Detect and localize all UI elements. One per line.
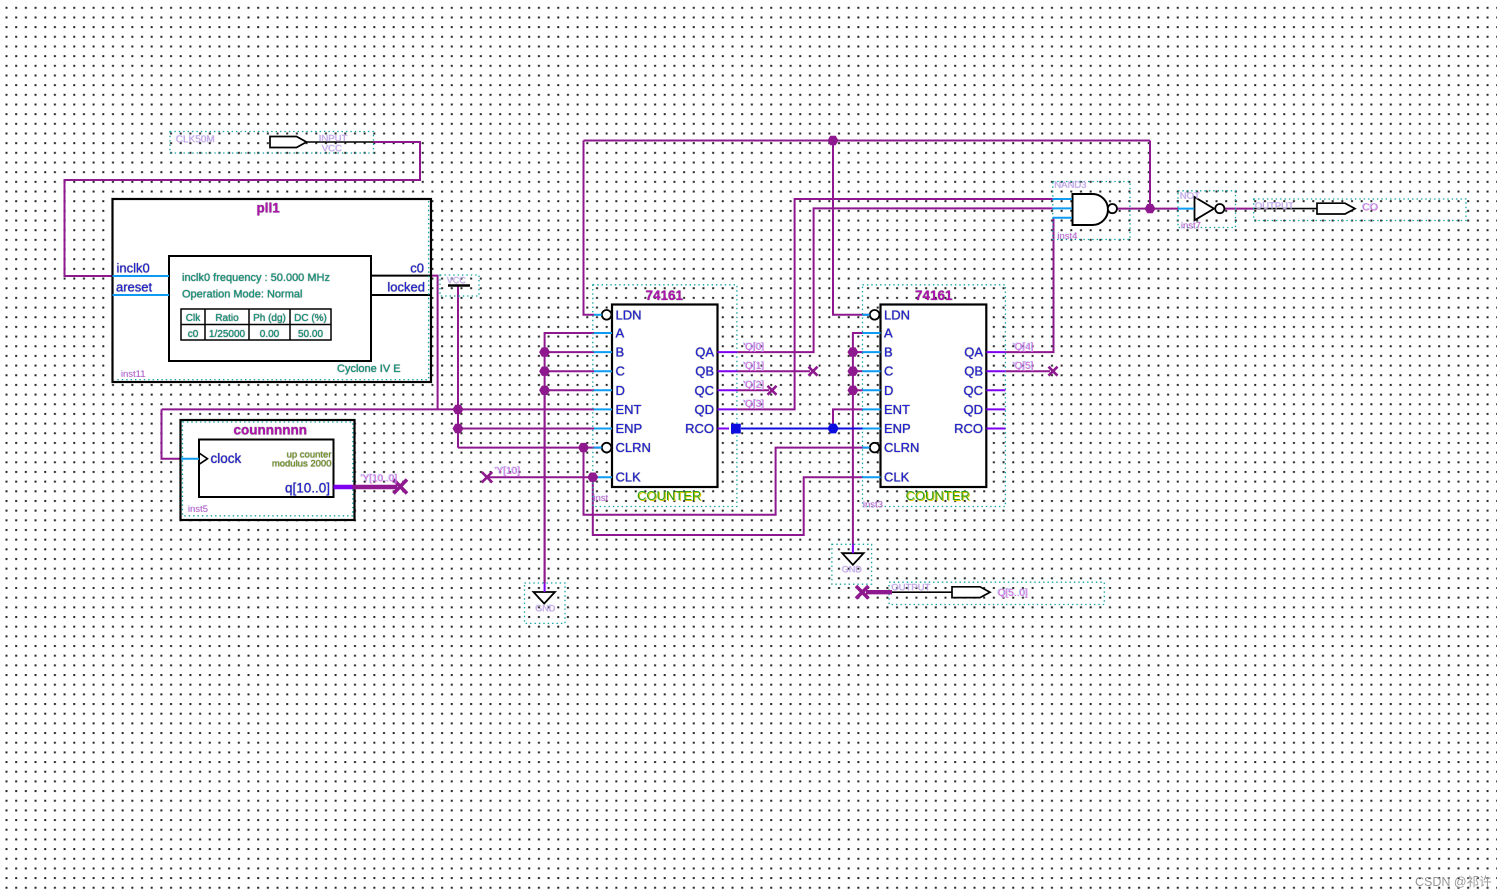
svg-text:locked: locked	[387, 280, 425, 295]
wire D1 tap	[545, 389, 594, 391]
bus Y[10..0] violet stub	[334, 485, 353, 489]
svg-text:COUNTER: COUNTER	[637, 488, 701, 503]
stub U1 QA	[718, 351, 738, 353]
svg-text:QC: QC	[964, 383, 984, 398]
svg-text:0.00: 0.00	[260, 329, 280, 340]
svg-text:RCO: RCO	[685, 421, 714, 436]
svg-text:clock: clock	[211, 451, 242, 466]
svg-text:Clk: Clk	[186, 313, 201, 324]
svg-text:D: D	[616, 383, 625, 398]
svg-text:counnnnnn: counnnnnn	[234, 423, 307, 438]
NAND3 bubble	[1108, 204, 1117, 213]
pll1 table	[181, 309, 331, 340]
svg-text:A: A	[884, 326, 893, 341]
LDN2 bubble	[870, 310, 880, 320]
stub U2 ENT	[863, 408, 881, 410]
stub U2 QD	[986, 408, 1005, 410]
svg-text:inst: inst	[594, 493, 609, 504]
svg-text:'Y[10]: 'Y[10]	[495, 466, 520, 477]
stub U2 CLRN	[863, 447, 870, 449]
wire NAND out to NOT in	[1117, 208, 1178, 210]
wire GND1 riser	[544, 390, 546, 583]
wire QA1 to NAND in2	[737, 208, 1053, 352]
output pin CO symbol	[1317, 203, 1355, 214]
svg-text:QA: QA	[695, 345, 714, 360]
stub GND2	[852, 545, 854, 554]
wire QA2 to NAND in3	[1005, 218, 1053, 352]
stub U2 QC	[986, 389, 1005, 391]
stub NAND3 in1	[1053, 198, 1072, 200]
stub U1 QD	[718, 408, 738, 410]
svg-text:QA: QA	[964, 345, 983, 360]
selection rect 74161 inst	[593, 285, 737, 507]
blue junction ENP2/ENT2	[827, 424, 838, 434]
svg-text:GND: GND	[536, 604, 557, 614]
svg-text:C: C	[616, 364, 625, 379]
svg-text:1/25000: 1/25000	[209, 329, 246, 340]
wire CLK1 to CLK2 U-route	[593, 477, 863, 535]
svg-text:QB: QB	[695, 364, 714, 379]
svg-text:areset: areset	[116, 280, 153, 295]
svg-text:QD: QD	[695, 402, 715, 417]
selection rect GND2	[832, 544, 872, 584]
svg-text:'Q[0]: 'Q[0]	[744, 342, 765, 353]
svg-text:DC (%): DC (%)	[294, 313, 327, 324]
74161 inst3 box	[881, 305, 987, 488]
stub NAND3 in2	[1053, 207, 1072, 209]
selection rect CLK50M input	[170, 132, 374, 154]
stub U2 QA	[986, 351, 1005, 353]
junction bus1 D	[539, 386, 550, 395]
stub U2 B	[863, 351, 881, 353]
svg-text:NAND3: NAND3	[1055, 180, 1087, 191]
svg-text:inst11: inst11	[121, 369, 146, 380]
LDN1 bubble	[602, 310, 612, 320]
svg-text:Ph (dg): Ph (dg)	[253, 313, 286, 324]
CLRN2 bubble	[870, 443, 880, 453]
svg-text:OUTPUT: OUTPUT	[1255, 201, 1294, 212]
stub NAND3 in3	[1053, 217, 1072, 219]
wire ENP1 from VCC	[458, 428, 594, 430]
wire D2 tap	[853, 389, 863, 391]
stub U1 CLK	[594, 476, 612, 478]
GND1 symbol	[534, 592, 555, 604]
wire NOT out to CO pin	[1225, 208, 1254, 210]
stub counnnnnn clock	[181, 458, 199, 460]
svg-text:q[10..0]: q[10..0]	[285, 481, 330, 496]
svg-text:50.00: 50.00	[298, 329, 323, 340]
VCC bar	[448, 284, 470, 286]
wire Y10 to CLK1	[487, 476, 594, 478]
NOT bubble	[1215, 204, 1224, 213]
bus Y[10..0] thick	[353, 485, 398, 489]
svg-text:74161: 74161	[646, 288, 684, 303]
stub U1 QB	[718, 370, 738, 372]
output pin Q[5..0] symbol	[952, 587, 990, 598]
wire C1 tap	[545, 370, 594, 372]
stub U1 QC	[718, 389, 738, 391]
wire QB1 stub to X	[737, 370, 810, 372]
selection rect CO output	[1254, 199, 1466, 221]
svg-text:inst5: inst5	[188, 504, 208, 515]
wire ENT2 from RCO net	[833, 409, 863, 428]
svg-text:C: C	[884, 364, 893, 379]
svg-text:'Q[2]: 'Q[2]	[744, 380, 765, 391]
svg-text:'Y[10..0]: 'Y[10..0]	[361, 473, 398, 484]
stub U2 LDN	[863, 314, 870, 316]
svg-text:inst7: inst7	[1181, 221, 1201, 232]
svg-text:inclk0 frequency : 50.000 MHz: inclk0 frequency : 50.000 MHz	[182, 272, 330, 284]
stub U1 LDN	[594, 314, 602, 316]
svg-text:'Q[5]: 'Q[5]	[1013, 361, 1034, 372]
counnnnnn clock triangle	[200, 453, 208, 464]
svg-text:D: D	[884, 383, 893, 398]
wire QC1 stub to X	[737, 389, 769, 391]
selection rect GND1	[525, 583, 566, 623]
junction VCC/ENT	[453, 405, 464, 414]
wire pll1 c0 output down	[431, 276, 438, 410]
svg-text:74161: 74161	[915, 288, 953, 303]
stub U2 C	[863, 370, 881, 372]
X marker Y[10] CLK1	[482, 472, 492, 482]
svg-text:B: B	[616, 345, 625, 360]
svg-text:COUNTER: COUNTER	[906, 488, 970, 503]
X marker QC1	[768, 386, 777, 395]
stub pll inclk0	[113, 275, 170, 277]
svg-text:LDN: LDN	[884, 307, 910, 322]
selection rect NOT	[1178, 191, 1236, 228]
74161 inst box	[612, 305, 718, 488]
svg-text:inst3: inst3	[863, 500, 883, 511]
stub U2 A	[863, 332, 881, 334]
X marker QB2	[1049, 367, 1058, 376]
svg-text:GND: GND	[842, 565, 863, 575]
wire QD1 to NAND in1	[737, 199, 1053, 409]
svg-text:ENT: ENT	[616, 402, 642, 417]
stub U1 ENT	[594, 408, 612, 410]
counnnnnn inner box	[199, 440, 334, 498]
svg-text:QC: QC	[695, 383, 715, 398]
bus Q[5..0] thick	[866, 590, 892, 594]
svg-text:RCO: RCO	[954, 421, 983, 436]
svg-text:ENT: ENT	[884, 402, 910, 417]
svg-text:pll1: pll1	[257, 201, 281, 216]
input pin CLK50M line	[307, 141, 374, 143]
stub U2 QB	[986, 370, 1005, 372]
svg-text:CSDN @祁许: CSDN @祁许	[1415, 874, 1492, 889]
selection rect Q[5..0] output	[889, 582, 1104, 604]
pll1 inner box	[169, 256, 371, 361]
X marker QB1	[809, 367, 818, 376]
NAND3 gate body	[1073, 194, 1109, 225]
stub U1 D	[594, 389, 612, 391]
blue net RCO1 to ENP2	[741, 428, 863, 430]
svg-text:'Q[3]: 'Q[3]	[744, 399, 765, 410]
svg-text:QB: QB	[964, 364, 983, 379]
junction CLK1	[587, 473, 598, 482]
CLRN1 bubble	[602, 443, 612, 453]
junction bus2 B	[847, 347, 858, 356]
selection rect 74161 inst3	[863, 285, 1006, 507]
svg-text:Ratio: Ratio	[215, 313, 239, 324]
svg-text:'Q[1]: 'Q[1]	[744, 361, 765, 372]
stub U1 A	[594, 332, 612, 334]
blue square RCO1	[731, 424, 741, 434]
wire B1 tap	[545, 351, 594, 353]
svg-text:CLK: CLK	[616, 470, 642, 485]
wire C2 tap	[853, 370, 863, 372]
pll1 outer box	[113, 199, 432, 382]
GND2 symbol	[842, 553, 863, 565]
stub U1 B	[594, 351, 612, 353]
svg-text:CLK50M: CLK50M	[176, 135, 215, 146]
svg-text:Q[5..0]: Q[5..0]	[998, 588, 1028, 599]
svg-text:VCC: VCC	[447, 276, 467, 286]
selection rect VCC symbol	[440, 275, 479, 296]
svg-text:OUTPUT: OUTPUT	[892, 583, 931, 594]
stub U2 CLK	[863, 476, 881, 478]
wire bus1 ABCD	[545, 333, 594, 583]
stub U2 ENP	[863, 428, 881, 430]
junction bus1 C	[539, 367, 550, 376]
junction top net LDN2	[828, 136, 839, 145]
wire QB2 stub to X	[1005, 370, 1050, 372]
junction VCC/ENP	[453, 424, 464, 433]
stub U1 C	[594, 370, 612, 372]
svg-text:LDN: LDN	[616, 307, 642, 322]
wire LDN2 drop	[833, 141, 870, 315]
svg-text:CLRN: CLRN	[884, 440, 919, 455]
stub NOT in	[1178, 208, 1194, 210]
wire NAND out to top net	[1149, 141, 1151, 209]
svg-text:B: B	[884, 345, 893, 360]
X marker bus Q[5..0]	[856, 586, 869, 599]
selection rect NAND3	[1053, 182, 1130, 240]
svg-text:c0: c0	[410, 261, 424, 276]
stub U1 CLRN	[594, 447, 602, 449]
output pin CO line	[1254, 208, 1317, 210]
svg-text:CO: CO	[1363, 202, 1379, 214]
svg-text:'Q[4]: 'Q[4]	[1013, 342, 1034, 353]
pll1 stub locked (black)	[371, 294, 431, 296]
wire VCC to CLRN1	[458, 447, 602, 449]
selection rect counnnnnn	[183, 422, 353, 516]
wire to counnnnnn clock	[162, 409, 182, 458]
junction CLRN1	[578, 443, 589, 452]
wire CLK50M input to pll1 inclk0	[65, 142, 421, 276]
stub U1 RCO	[718, 428, 730, 430]
wire CLRN1 to CLRN2 U-route	[584, 448, 870, 515]
svg-text:inclk0: inclk0	[117, 261, 150, 276]
wire B2 tap	[853, 351, 863, 353]
stub pll areset	[113, 294, 170, 296]
pll1 stub c0 (black)	[371, 275, 431, 277]
stub U2 RCO	[986, 428, 1005, 430]
wire c0/VCC horizontal to ENT1	[162, 408, 595, 410]
svg-text:c0: c0	[188, 329, 199, 340]
selection rect pll1	[115, 201, 429, 380]
wire VCC down	[457, 286, 459, 448]
NOT gate triangle	[1195, 197, 1215, 220]
counnnnnn outer box	[181, 420, 355, 520]
svg-text:ENP: ENP	[616, 421, 643, 436]
stub U1 ENP	[594, 428, 612, 430]
wire bus2 ABCD	[853, 333, 863, 545]
svg-text:inst4: inst4	[1058, 231, 1078, 242]
stub GND1	[544, 583, 546, 592]
junction NAND output	[1145, 204, 1156, 213]
X marker bus Y[10..0]	[394, 480, 408, 494]
junction bus2 D	[847, 386, 858, 395]
input pin CLK50M symbol	[270, 137, 307, 148]
svg-text:CLK: CLK	[884, 470, 910, 485]
svg-text:modulus 2000: modulus 2000	[272, 459, 332, 470]
svg-text:Operation Mode: Normal: Operation Mode: Normal	[182, 289, 302, 301]
wire LDN1 drop	[584, 141, 595, 315]
output pin Q[5..0] line	[892, 591, 952, 593]
svg-text:ENP: ENP	[884, 421, 911, 436]
junction bus2 C	[847, 367, 858, 376]
svg-text:A: A	[616, 326, 625, 341]
svg-text:QD: QD	[964, 402, 984, 417]
svg-text:CLRN: CLRN	[616, 440, 651, 455]
junction bus1 B	[539, 347, 550, 356]
svg-text:Cyclone IV E: Cyclone IV E	[337, 363, 401, 375]
svg-text:VCC: VCC	[322, 144, 342, 155]
wire top net LDN	[584, 140, 1151, 142]
stub U2 D	[863, 389, 881, 391]
svg-text:NOT: NOT	[1180, 191, 1200, 202]
